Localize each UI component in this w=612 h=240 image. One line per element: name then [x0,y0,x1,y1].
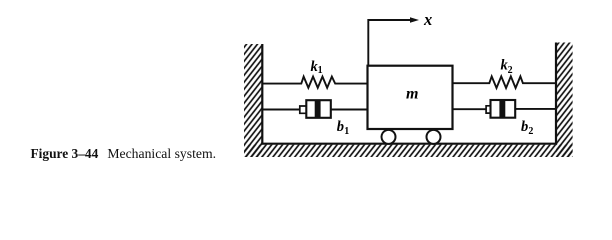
svg-text:b: b [337,119,344,135]
svg-text:b: b [521,119,528,135]
damper b2 piston [499,100,505,117]
damper b1 cylinder [306,100,331,118]
svg-text:2: 2 [508,65,513,76]
damper b1 rod to mass [331,109,368,111]
wire spring k1 left segment + zigzag + right segment [262,77,367,88]
damper b1 piston [315,101,321,118]
floor hatch [244,145,573,157]
damper b2 cylinder [491,100,516,118]
label b1 [337,119,349,137]
wheel left [382,130,396,144]
damper b2 fork [486,106,491,113]
damper b2 rod from mass [453,108,487,110]
floor line [261,143,557,145]
label b2 [521,119,533,137]
label m [406,85,418,102]
damper b1 fork [300,106,307,113]
wall right hatch [556,43,573,158]
displacement arrow x [368,17,419,65]
caption Figure 3-44 Mechanical system. [31,146,217,162]
label x [423,10,432,29]
damper b2 rod to wall [515,108,556,110]
svg-text:1: 1 [318,65,323,76]
label k1 [311,59,323,76]
wall left hatch [244,44,262,157]
svg-text:1: 1 [344,126,349,137]
wire spring k2 [453,76,557,88]
wall right face line [555,43,557,145]
wheel right [427,130,441,144]
svg-text:2: 2 [528,126,533,137]
wall left face line [261,44,263,145]
mass m box [368,66,453,129]
svg-text:m: m [406,85,418,102]
label k2 [501,58,513,76]
svg-text:x: x [423,10,432,29]
damper b1 rod from wall [262,109,300,111]
